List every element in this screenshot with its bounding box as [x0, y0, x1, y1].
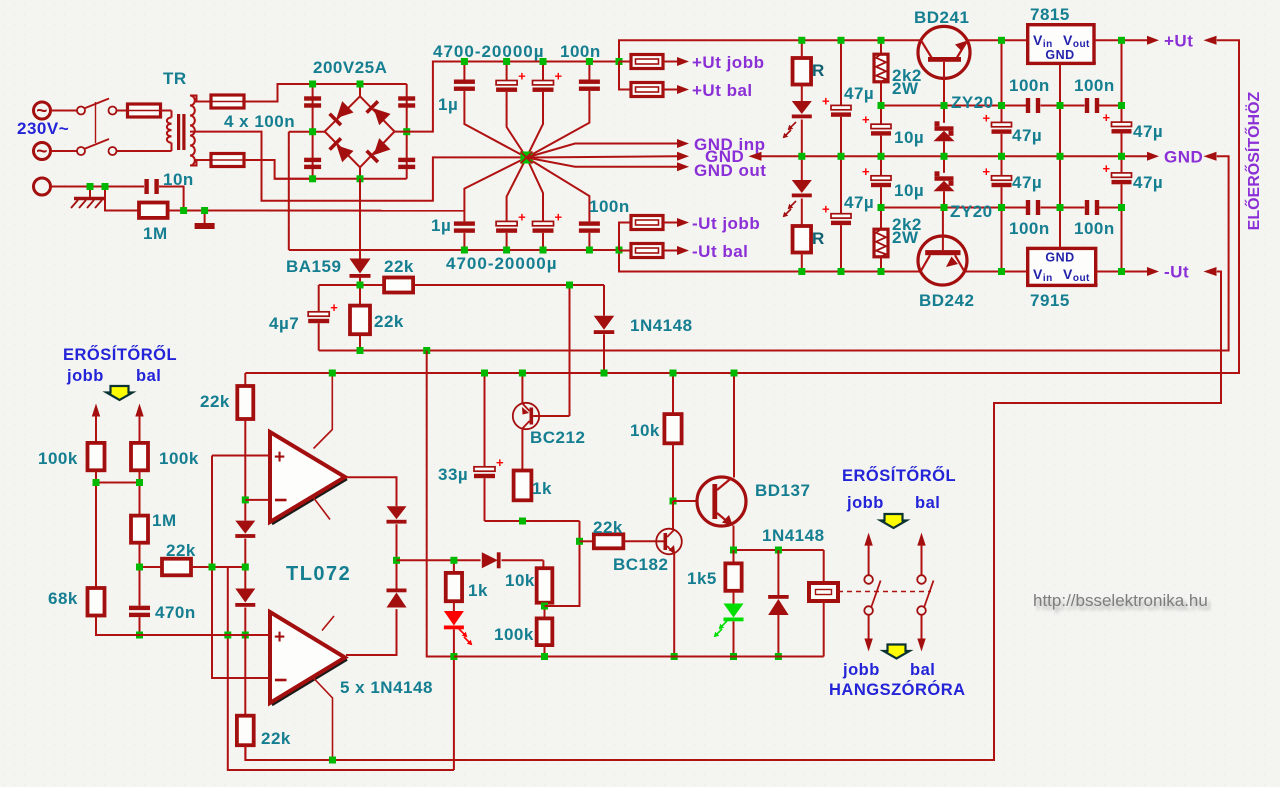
op-amp U1B	[270, 612, 347, 705]
svg-text:47µ: 47µ	[844, 193, 874, 212]
wire zener row top	[881, 105, 1122, 107]
capacitor 47u A top	[822, 40, 851, 156]
junction row373 33u	[481, 370, 488, 377]
resistor 2k2 bottom	[874, 208, 888, 272]
svg-text:5 x 1N4148: 5 x 1N4148	[340, 678, 433, 697]
label 47u B bottom	[1012, 173, 1042, 192]
resistor 1M mains	[139, 203, 168, 218]
wire fuse F3 to bridge	[244, 160, 313, 179]
junction U1B vminus	[329, 757, 336, 764]
svg-text:BA159: BA159	[286, 257, 341, 276]
svg-text:1µ: 1µ	[438, 95, 458, 114]
svg-text:100n: 100n	[1074, 76, 1115, 95]
junction 1M right	[180, 207, 187, 214]
label 47u C top	[1133, 122, 1163, 141]
svg-text:7915: 7915	[1030, 291, 1070, 310]
resistor 100k jobb	[88, 443, 105, 483]
label bal left	[136, 367, 161, 385]
junction gnd x881	[878, 153, 885, 160]
capacitor 47u C top	[1103, 40, 1132, 156]
LED plus indicator	[783, 85, 812, 157]
svg-text:+: +	[822, 93, 830, 108]
svg-text:ELŐERŐSÍTŐHÖZ: ELŐERŐSÍTŐHÖZ	[1244, 91, 1263, 230]
svg-text:4µ7: 4µ7	[269, 314, 299, 333]
svg-text:68k: 68k	[48, 589, 78, 608]
capacitor 4700u top B	[527, 62, 563, 158]
label 100k jobb	[38, 449, 78, 468]
label ELOEROSITOHOZ	[1244, 91, 1263, 230]
svg-text:GND: GND	[1164, 148, 1203, 167]
connector +Ut bal	[631, 83, 689, 97]
label BD241	[914, 8, 969, 27]
diode 1N4148 flyback	[768, 550, 789, 657]
label 1u bottom	[431, 216, 451, 235]
star ground point	[521, 152, 533, 164]
label 7815	[1030, 5, 1070, 24]
label 100k bal	[159, 449, 199, 468]
resistor R top	[793, 40, 812, 84]
resistor R bottom	[793, 226, 812, 272]
svg-text:1k: 1k	[468, 581, 488, 600]
capacitor 100n bottom	[527, 158, 600, 251]
junction or node	[393, 557, 400, 564]
junction zrowb x1060	[1057, 204, 1064, 211]
label 100n reg2	[1074, 76, 1115, 95]
label 100k drive	[494, 625, 534, 644]
LED red indicator	[444, 601, 472, 656]
wire -Ut feedback	[245, 272, 1221, 761]
label GND out	[694, 161, 766, 180]
earth ground symbol	[71, 187, 106, 209]
svg-text:bal: bal	[910, 661, 935, 679]
junction 470n bottom	[136, 632, 143, 639]
diode D3 clamp	[235, 521, 255, 567]
svg-text:+: +	[862, 164, 870, 179]
wire -Ut bal link	[619, 250, 631, 252]
svg-text:GND: GND	[1045, 251, 1074, 265]
wire U1A minus input	[245, 499, 270, 501]
resistor 1M in	[131, 516, 148, 567]
junction flyback bot	[775, 653, 782, 660]
svg-text:7815: 7815	[1030, 5, 1070, 24]
label 470n	[155, 603, 196, 622]
label R bottom	[812, 229, 825, 248]
label jobb right top	[846, 494, 884, 512]
wire row285	[319, 284, 604, 286]
capacitor 47u A bottom	[822, 156, 851, 271]
wire plus raw rail	[395, 62, 620, 132]
wire +Ut jobb link	[619, 61, 631, 63]
label +Ut jobb	[692, 53, 764, 72]
resistor 22k fb h	[140, 559, 246, 576]
wire fuse F2 to bridge	[244, 84, 313, 102]
resistor 22k sense v	[350, 285, 370, 351]
svg-text:+: +	[274, 447, 286, 468]
svg-text:47µ: 47µ	[1012, 173, 1042, 192]
svg-text:100k: 100k	[38, 449, 78, 468]
svg-text:+: +	[274, 627, 286, 648]
junction gnd x801.8	[798, 153, 805, 160]
label 2k2 bottom	[892, 215, 922, 247]
wire 10n right	[159, 187, 184, 211]
junction rail C3	[540, 58, 547, 65]
transistor BC212	[513, 373, 570, 429]
wire bd137 base	[673, 500, 698, 502]
capacitor 100n bridge BR	[398, 158, 415, 169]
junction row373 bc212	[519, 370, 526, 377]
svg-text:1M: 1M	[152, 511, 177, 530]
label 1N4148 supply	[630, 316, 693, 335]
capacitor 100n bridge TL	[304, 96, 321, 107]
junction clamp bottom	[242, 632, 249, 639]
wire -Ut jobb link	[619, 223, 631, 251]
junction em row a	[730, 547, 737, 554]
wire U1A plus input	[212, 455, 270, 457]
label 47u A top	[844, 84, 874, 103]
junction opamp minus	[242, 496, 249, 503]
wire bridge right column	[406, 84, 408, 179]
junction rail minus out	[616, 247, 623, 254]
label GND mid	[705, 147, 744, 166]
resistor 100k drive	[537, 606, 553, 657]
label bal speaker	[910, 661, 935, 679]
junction chassis	[201, 207, 208, 214]
label 22k base	[593, 518, 623, 537]
diode D6 drive	[482, 552, 501, 568]
diode D4 clamp	[235, 567, 255, 635]
bridge diode D2	[365, 100, 390, 125]
svg-text:-Ut: -Ut	[1164, 263, 1189, 282]
svg-text:HANGSZÓRÓRA: HANGSZÓRÓRA	[829, 680, 966, 699]
diode D2 or	[346, 560, 407, 655]
wire U1A output	[345, 477, 397, 506]
arrow GND out	[677, 162, 689, 171]
relay contact jobb	[864, 533, 880, 652]
capacitor 10u bottom	[862, 156, 891, 207]
svg-text:4700-20000µ: 4700-20000µ	[446, 254, 558, 273]
svg-text:-Ut bal: -Ut bal	[692, 242, 748, 261]
svg-text:10n: 10n	[163, 170, 194, 189]
label TL072	[286, 563, 351, 585]
svg-text:BC182: BC182	[613, 555, 668, 574]
junction bridge top	[357, 81, 364, 88]
label 4u7	[269, 314, 299, 333]
AC source L terminal	[34, 101, 78, 122]
junction signal row567	[209, 564, 216, 571]
wire BC212 base drop	[569, 285, 571, 416]
junction gndrow b	[423, 347, 430, 354]
svg-text:+: +	[518, 69, 526, 84]
svg-text:10µ: 10µ	[894, 181, 924, 200]
label R top	[812, 61, 825, 80]
bridge diode D4	[365, 138, 390, 163]
label BD242	[919, 291, 974, 310]
resistor 22k base	[594, 534, 656, 548]
label 1k led	[468, 581, 488, 600]
resistor 1k5	[725, 550, 741, 591]
svg-text:47µ: 47µ	[1133, 122, 1163, 141]
junction bridge left	[309, 128, 316, 135]
yellow arrow input left	[107, 386, 133, 400]
op-amp U1A vplus stub	[314, 373, 333, 449]
wire GND rail	[762, 155, 1148, 157]
switch S1 pole 2	[77, 139, 172, 155]
label +Ut bal	[692, 81, 753, 100]
label 1k5	[687, 569, 717, 588]
wire star gnd inp	[527, 144, 678, 158]
junction b2 node	[576, 538, 583, 545]
capacitor 47u C bottom	[1103, 156, 1132, 271]
svg-text:100n: 100n	[560, 42, 601, 61]
switch S1 pole 1	[77, 99, 128, 115]
capacitor 4700u bot B	[527, 158, 563, 251]
wire 22k base link	[580, 540, 594, 542]
label 68k	[48, 589, 78, 608]
fuse F2	[211, 95, 244, 108]
svg-text:2W: 2W	[892, 228, 919, 247]
svg-text:10µ: 10µ	[894, 128, 924, 147]
wire GND feedback	[319, 156, 1229, 350]
capacitor 100n top	[527, 62, 600, 158]
svg-text:100n: 100n	[1009, 76, 1050, 95]
label jobb speaker	[842, 661, 880, 679]
label 100n reg3	[1009, 219, 1050, 238]
svg-text:10k: 10k	[505, 571, 535, 590]
svg-text:http://bsselektronika.hu: http://bsselektronika.hu	[1033, 591, 1208, 610]
junction 10k row373	[670, 370, 677, 377]
capacitor 1u bottom	[454, 158, 527, 251]
junction earth b	[102, 183, 109, 190]
junction gnd x944	[941, 153, 948, 160]
capacitor 100n reg2	[1085, 98, 1099, 113]
op-amp U1B vminus stub	[313, 678, 333, 761]
op-amp U1B stub1	[322, 616, 334, 631]
regulator 7915	[1002, 156, 1148, 286]
resistor 1k timer	[514, 471, 532, 501]
svg-text:R: R	[812, 229, 825, 248]
wire signal riser	[212, 456, 270, 679]
capacitor 100n reg1	[1026, 98, 1040, 113]
wire minus raw rail	[289, 249, 619, 251]
svg-text:1k: 1k	[532, 479, 552, 498]
svg-text:10k: 10k	[630, 421, 660, 440]
star cross	[521, 152, 533, 164]
wire 1M to chassis node	[168, 210, 205, 212]
label 1M in	[152, 511, 177, 530]
op-amp U1A stub2	[313, 497, 330, 520]
label EROSITOROL right	[842, 466, 956, 485]
switch S1 linkage	[95, 102, 97, 143]
label 4700-20000u top	[433, 42, 545, 61]
svg-text:1N4148: 1N4148	[630, 316, 693, 335]
label 7915	[1030, 291, 1070, 310]
wire TR secondary top to fuse F2	[190, 96, 211, 102]
LED minus indicator	[783, 156, 812, 226]
arrow GND b	[1204, 152, 1217, 161]
capacitor 100n bridge BL	[304, 158, 321, 169]
wire zener row bottom	[881, 207, 1122, 209]
svg-text:+: +	[983, 110, 991, 125]
label 10u bottom	[894, 181, 924, 200]
junction zrowb x1121.5	[1118, 204, 1125, 211]
connector +Ut jobb	[631, 55, 689, 69]
junction bridge top left	[309, 81, 316, 88]
arrow GND mid	[677, 152, 689, 161]
junction rail271 x841	[838, 268, 845, 275]
svg-text:22k: 22k	[200, 392, 230, 411]
fuse F1	[128, 104, 161, 117]
resistor 22k bias bottom	[237, 635, 254, 760]
label GND right	[1164, 148, 1203, 167]
arrow GND inp	[677, 139, 689, 148]
svg-text:TR: TR	[163, 69, 187, 88]
junction zrowt x944	[941, 102, 948, 109]
junction hyst row635	[224, 632, 231, 639]
junction rail40 x801.8	[798, 37, 805, 44]
junction BA159 row a	[357, 282, 364, 289]
wire hysteresis drop	[228, 567, 454, 770]
svg-text:22k: 22k	[374, 312, 404, 331]
svg-text:+: +	[862, 112, 870, 127]
transistor BD241	[918, 26, 970, 105]
junction BA159 row b	[566, 282, 573, 289]
wire fuse F1 to TR	[161, 110, 172, 112]
label -Ut	[1164, 263, 1189, 282]
capacitor 33u	[474, 373, 504, 521]
junction railm C3	[540, 247, 547, 254]
svg-text:470n: 470n	[155, 603, 196, 622]
resistor 10k bd137	[664, 373, 681, 501]
svg-text:100n: 100n	[1009, 219, 1050, 238]
label 22k sense h	[384, 257, 414, 276]
capacitor 4700u bot A	[496, 158, 526, 251]
wire bridge left link	[289, 131, 325, 133]
label 230V~	[17, 119, 69, 138]
wire +Ut feedback	[245, 40, 1239, 373]
label 1N4148 flyback	[762, 526, 825, 545]
junction gnd x841	[838, 153, 845, 160]
label GND inp	[694, 135, 766, 154]
chassis ground symbol	[195, 211, 215, 230]
earth input terminal	[34, 178, 106, 195]
diode 1N4148 supply	[594, 285, 615, 373]
label 100n bottom	[589, 197, 630, 216]
wire rail271 bd242 to 7915	[964, 271, 1001, 273]
junction rail C2	[503, 58, 510, 65]
wire bridge minus drop	[288, 132, 290, 250]
label 4 x 100n	[224, 112, 295, 131]
svg-text:R: R	[812, 61, 825, 80]
capacitor 1u top	[454, 62, 527, 158]
wire earth row to star	[205, 210, 465, 212]
svg-text:GND out: GND out	[694, 161, 766, 180]
junction bd137 c	[731, 370, 738, 377]
wire bc182 collector	[672, 501, 674, 530]
wire gnd row bottom	[454, 656, 824, 658]
svg-text:+: +	[518, 209, 526, 224]
wire bridge left column	[312, 84, 314, 179]
wire BC212 collector	[521, 429, 523, 471]
wire plus rail up	[619, 40, 921, 89]
svg-text:jobb: jobb	[842, 661, 880, 679]
wire R LED gnd	[0, 0, 1, 1]
transistor BD137	[697, 373, 746, 550]
label TR	[163, 69, 187, 88]
svg-text:22k: 22k	[261, 729, 291, 748]
svg-text:+: +	[555, 69, 563, 84]
connector -Ut jobb	[631, 216, 689, 230]
junction rail plus out	[616, 58, 623, 65]
capacitor 47u B top	[983, 106, 1012, 157]
capacitor 4u7	[308, 285, 338, 351]
svg-text:BD242: BD242	[919, 291, 974, 310]
svg-text:+Ut jobb: +Ut jobb	[692, 53, 764, 72]
junction row373 d5	[601, 370, 608, 377]
svg-text:-Ut jobb: -Ut jobb	[692, 214, 760, 233]
svg-text:ERŐSÍTŐRŐL: ERŐSÍTŐRŐL	[842, 466, 956, 485]
svg-text:100k: 100k	[494, 625, 534, 644]
label BD137	[755, 481, 810, 500]
junction bridge bottom left	[309, 175, 316, 182]
wire base row	[485, 520, 580, 522]
capacitor 100n reg3	[1026, 200, 1040, 215]
svg-text:1M: 1M	[143, 224, 168, 243]
junction rail271 x1001.5	[998, 268, 1005, 275]
svg-text:BC212: BC212	[530, 428, 585, 447]
junction railm C1	[461, 247, 468, 254]
label ZY20 top	[951, 93, 994, 112]
junction rail40 x1001.5	[998, 37, 1005, 44]
label 1k timer	[532, 479, 552, 498]
label 4700-20000u bottom	[446, 254, 558, 273]
junction bridge bottom	[357, 175, 364, 182]
label 5 x 1N4148	[340, 678, 433, 697]
wire center tap to star	[190, 132, 521, 201]
svg-text:1µ: 1µ	[431, 216, 451, 235]
label jobb left	[66, 367, 104, 385]
label 10n	[163, 170, 194, 189]
svg-text:+: +	[1103, 161, 1111, 176]
svg-text:~: ~	[36, 142, 48, 163]
svg-text:33µ: 33µ	[438, 465, 468, 484]
svg-text:+: +	[496, 455, 504, 470]
label 100n top	[560, 42, 601, 61]
input arrow jobb	[92, 404, 100, 443]
svg-text:200V25A: 200V25A	[313, 58, 387, 77]
label 200V25A	[313, 58, 387, 77]
svg-text:1N4148: 1N4148	[762, 526, 825, 545]
junction bc182 em	[671, 653, 678, 660]
junction zrowt x881	[878, 102, 885, 109]
LED green	[714, 591, 744, 657]
junction rail271 x881	[878, 268, 885, 275]
junction gnd x1001.5	[998, 153, 1005, 160]
svg-text:4 x 100n: 4 x 100n	[224, 112, 295, 131]
zener ZY20 top	[934, 106, 955, 157]
svg-text:jobb: jobb	[66, 367, 104, 385]
transistor BD242	[918, 208, 967, 286]
op-amp U1A	[270, 432, 347, 524]
resistor 100k bal	[131, 443, 148, 483]
svg-text:47µ: 47µ	[1012, 126, 1042, 145]
resistor 10k drive	[537, 568, 553, 606]
junction in jobb	[93, 479, 100, 486]
wire TR secondary bottom to fuse F3	[190, 160, 211, 166]
label 47u C bottom	[1133, 173, 1163, 192]
capacitor 100n reg4	[1085, 200, 1099, 215]
wire U1B plus input	[96, 634, 270, 636]
wire input join	[96, 483, 140, 589]
